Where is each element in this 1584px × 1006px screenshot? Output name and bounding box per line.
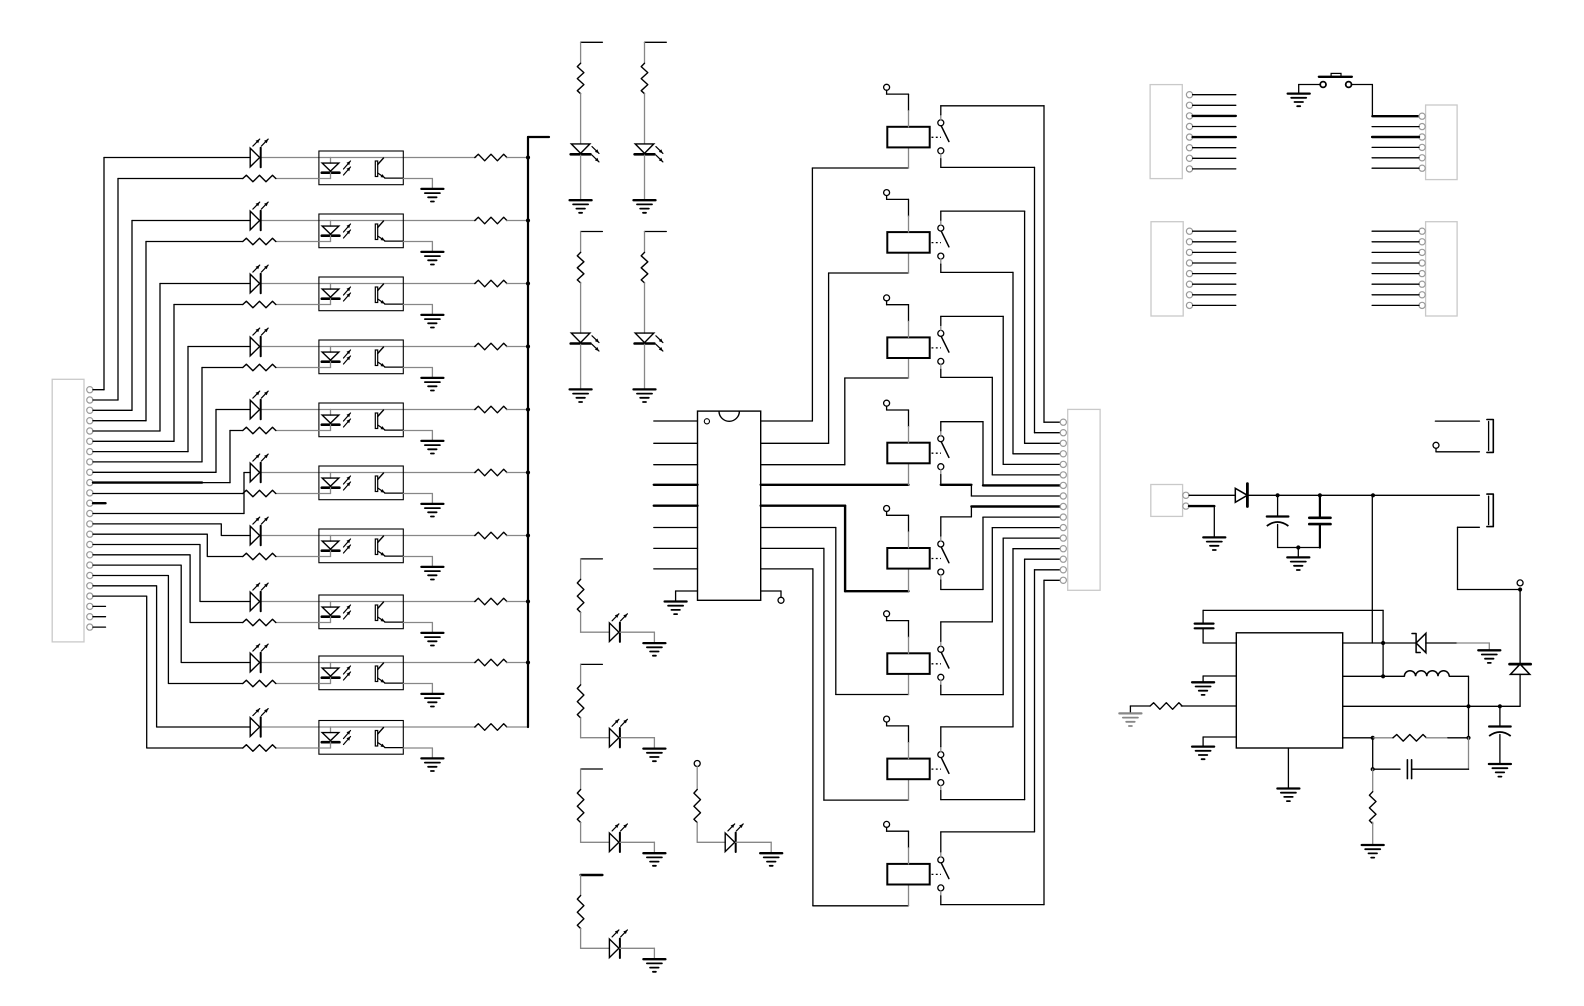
relay K5 coil bottom stem (908, 569, 910, 592)
connector J5 pin 7 (1186, 292, 1192, 298)
resistor R16 (output pull) (475, 469, 507, 476)
wire IC pin to relay K4 coil (761, 484, 909, 486)
connector J6 pin 5 (1419, 271, 1425, 277)
output capacitor C4 (1499, 706, 1501, 726)
relay K2 switch lower terminal (938, 253, 944, 259)
wire J3 pin 2 (1193, 104, 1236, 106)
wire J7 pin2 to ground (thick) (1189, 505, 1214, 507)
bus junction row 6 (526, 470, 530, 474)
ground row 4 (421, 377, 443, 379)
wire relay K3 common to J2 pin 5 (940, 325, 942, 330)
optocoupler U7 box (319, 529, 403, 563)
relay K1 switch lower terminal (938, 148, 944, 154)
wire relay K2 NO contact to J2 pin 4 (940, 259, 942, 264)
wire LED to ground (gray) (644, 344, 646, 388)
connector J4 pin 2 (1419, 124, 1425, 130)
wire LED to ground (gray) (580, 344, 582, 388)
wire row 5 resistor to bus (gray) (507, 409, 528, 411)
wire J6 pin 7 (1372, 294, 1419, 296)
wire to LED corner (gray) (580, 718, 582, 738)
wire row 9 cathode-resistor (gray) (276, 683, 319, 685)
connector J2 body (relay outputs) (1068, 409, 1100, 590)
bus junction row 5 (526, 407, 530, 411)
feedback capacitor C6 row (1373, 768, 1400, 770)
resistor R1 (input) (243, 175, 276, 182)
junction C1 (1276, 493, 1280, 497)
R32 ground (1362, 844, 1384, 846)
connector J3 pin 1 (1186, 92, 1192, 98)
resistor R3 (input) (243, 301, 276, 308)
wire LED to ground (gray) (580, 155, 582, 199)
wire row 5 cathode-resistor (gray) (276, 430, 319, 432)
wire relay K1 NO contact to J2 pin 2 (940, 154, 942, 159)
optocoupler internal LED (330, 284, 332, 290)
connector J6 pin 6 (1419, 281, 1425, 287)
wire J3 pin 4 (1193, 126, 1236, 128)
wire J3 pin 5 (1193, 136, 1236, 138)
junction C2 (1318, 493, 1322, 497)
wire LED to ground (gray) (644, 155, 646, 199)
relay K3 coil top terminal (884, 295, 890, 301)
connector J4 pin 5 (1419, 155, 1425, 161)
battery clip BT2 (lower) (1487, 494, 1493, 526)
connector J4 pin 6 (1419, 165, 1425, 171)
ground row 2 (421, 251, 443, 253)
connector J2 pin 12 (1060, 535, 1066, 541)
relay K4 switch blade (941, 442, 949, 458)
wire row 3 emitter to ground (gray) (403, 304, 432, 306)
wire to LED (gray) (580, 283, 582, 333)
resistor R5 (input) (243, 427, 276, 434)
resistor R32 (fb divider) (1369, 792, 1376, 824)
optocoupler internal LED (330, 158, 332, 164)
LED D13 (down) (571, 333, 590, 343)
power input ground (1203, 536, 1225, 538)
IC U11 left pin 2 wire (654, 442, 698, 444)
connector J3 pin 5 (1186, 134, 1192, 140)
relay K2 switch common terminal (938, 225, 944, 231)
battery clip BT1 (upper) (1435, 420, 1479, 422)
wire J5 pin 8 (1193, 304, 1236, 306)
resistor R7 (input) (243, 553, 276, 560)
optocoupler internal LED (330, 602, 332, 608)
relay K5 coil top terminal (884, 506, 890, 512)
optocoupler phototransistor (375, 224, 377, 240)
relay K4 coil top terminal (884, 400, 890, 406)
wire relay K6 NO contact to J2 pin 12 (940, 680, 942, 685)
output node wire (1343, 705, 1520, 707)
connector J2 pin 11 (1060, 525, 1066, 531)
wire row 7 resistor to bus (gray) (507, 535, 528, 537)
wire to LED corner (gray) (580, 823, 582, 843)
wire J4 pin 6 (1372, 167, 1419, 169)
resistor R22 (641, 63, 648, 93)
wire J5 pin 1 (1193, 230, 1236, 232)
connector J5 body (second-row left) (1151, 222, 1183, 316)
wire row 9 emitter to ground (gray) (403, 683, 432, 685)
resistor R18 (output pull) (475, 598, 507, 605)
wire from J1 pin 3 to row (vertical x=132.0) (93, 409, 132, 411)
optocoupler phototransistor (375, 539, 377, 555)
ground row 8 (421, 632, 443, 634)
connector J1 pin 4 (87, 418, 93, 424)
wire J5 pin 7 (1193, 294, 1236, 296)
optocoupler phototransistor (375, 605, 377, 621)
wire from J1 pin 18 to row (staircase) (93, 565, 250, 662)
resistor R10 (input) (243, 745, 276, 752)
wire J5 pin 6 (1193, 283, 1236, 285)
wire relay K8 NO contact to J2 pin 16 (940, 891, 942, 896)
connector J5 pin 3 (1186, 249, 1192, 255)
relay K6 coil bottom stem (908, 674, 910, 695)
resistor R29 (694, 790, 701, 823)
wire relay K7 common to J2 pin 13 (940, 747, 942, 752)
relay K8 switch common terminal (938, 857, 944, 863)
wire from J1 pin 19 to row (staircase) (93, 576, 243, 684)
IC U11 left pin 5 wire (654, 505, 698, 507)
ground for status 4 (643, 958, 665, 960)
wire J6 pin 1 (1372, 230, 1419, 232)
connector J1 pin 2 (87, 397, 93, 403)
resistor R28 (577, 896, 584, 929)
wire relay K7 NO contact to J2 pin 14 (940, 786, 942, 791)
relay K8 switch lower terminal (938, 885, 944, 891)
resistor R8 (input) (243, 619, 276, 626)
wire row 4 cathode-resistor (gray) (276, 367, 319, 369)
optocoupler internal LED (330, 221, 332, 227)
wire row 7 cathode-resistor (gray) (276, 556, 319, 558)
wire from J1 pin 20 to row (staircase) (93, 586, 250, 727)
resistor R4 (input) (243, 364, 276, 371)
relay K3 coil (887, 337, 929, 358)
U12 bottom pin ground (1287, 748, 1289, 788)
connector J1 pin 3 (87, 407, 93, 413)
connector J4 pin 3 (1419, 134, 1425, 140)
wire relay K5 common to J2 pin 9 (940, 536, 942, 541)
connector J2 pin 8 (1060, 493, 1066, 499)
wire LED to ground (gray) (620, 841, 654, 843)
relay K4 coil (887, 443, 929, 464)
relay K6 switch common terminal (938, 646, 944, 652)
relay K6 coil top terminal (884, 611, 890, 617)
optocoupler U2 box (319, 214, 403, 248)
wire J5 pin 2 (1193, 241, 1236, 243)
wire J3 pin 1 (1193, 94, 1236, 96)
wire J3 pin 8 (1193, 168, 1236, 170)
wire J6 pin 2 (1372, 241, 1419, 243)
resistor R14 (output pull) (475, 343, 507, 350)
relay K7 switch blade (941, 758, 949, 774)
wire IC pin to relay K8 coil (761, 568, 813, 570)
feedback resistor R31 row (1343, 737, 1373, 739)
capacitor C3 (timing) (1202, 610, 1204, 623)
wire relay K2 common to J2 pin 3 (940, 220, 942, 225)
connector J5 pin 6 (1186, 281, 1192, 287)
connector J2 pin 6 (1060, 472, 1066, 478)
indicator circuit top corner wire 1 (581, 41, 603, 43)
IC U11 left pin 7 wire (654, 547, 698, 549)
wire BT2 low side (1458, 526, 1480, 528)
wire IC pin to relay K6 coil (761, 527, 836, 529)
connector J1 pin 17 (87, 552, 93, 558)
ground for status 2 (643, 747, 665, 749)
wire from J1 pin 11 to row6 resistor (straight) (93, 493, 242, 495)
relay K8 coil (887, 864, 929, 885)
IC U11 left pin 6 wire (654, 527, 698, 529)
wire from J1 pin 2 to row (vertical x=118.0) (93, 399, 118, 401)
push button SW1 wires (1298, 85, 1300, 94)
connector J2 pin 10 (1060, 514, 1066, 520)
wire from J1 pin 5 to row (vertical x=160.0) (93, 430, 160, 432)
relay K7 coil (887, 759, 929, 780)
connector J1 pin 11 (87, 490, 93, 496)
wire from J1 pin 9 to row (vertical x=216.0) (93, 471, 216, 473)
optocoupler internal LED (330, 410, 332, 416)
connector J1 pin 9 (87, 469, 93, 475)
relay K7 switch lower terminal (938, 780, 944, 786)
wire to LED corner (gray) (580, 612, 582, 632)
connector J3 pin 4 (1186, 123, 1192, 129)
wire row 9 resistor to bus (gray) (507, 662, 528, 664)
resistor R11 (output pull) (475, 154, 507, 161)
wire from J1 pin 21 to row (staircase) (93, 596, 243, 748)
relay K1 coil top terminal (884, 84, 890, 90)
connector J1 pin 20 (87, 583, 93, 589)
wire J4 pin 2 (1372, 126, 1419, 128)
stub wire at J1 pin 23 (93, 616, 106, 618)
IC U11 body (698, 411, 761, 600)
resistor R21 (577, 63, 584, 93)
capacitor C2 (ceramic) (1319, 495, 1321, 518)
connector J6 pin 7 (1419, 292, 1425, 298)
IC U11 bottom-left ground pin wire (676, 590, 698, 592)
connector J7 pin 2 (1183, 503, 1189, 509)
ground for indicator 4 (634, 388, 656, 390)
connector J4 pin 1 (1419, 113, 1425, 119)
connector J1 pin 15 (87, 531, 93, 537)
push button SW1 (1320, 82, 1326, 88)
connector J6 pin 3 (1419, 249, 1425, 255)
C4 ground (1489, 763, 1511, 765)
junction rail to regulator (1371, 493, 1375, 497)
optocoupler phototransistor (375, 666, 377, 682)
wire relay K1 common to J2 pin 1 (940, 115, 942, 120)
ground row 7 (421, 566, 443, 568)
status circuit corner wire 2 (581, 663, 603, 665)
connector J1 pin 23 (87, 614, 93, 620)
wire row 7 anode (gray) (262, 535, 331, 537)
push button SW1 ground (1288, 92, 1310, 94)
connector J5 pin 2 (1186, 239, 1192, 245)
wire SW1 to J4 pin1 (1352, 84, 1373, 86)
optocoupler light arrows (344, 476, 351, 484)
resistor R9 (input) (243, 680, 276, 687)
relay K2 coil top terminal (884, 190, 890, 196)
vertical output to fb (1468, 706, 1470, 738)
wire row 8 cathode-resistor (gray) (276, 622, 319, 624)
wire J4 pin 5 (1372, 157, 1419, 159)
resistor R20 (output pull) (475, 724, 507, 731)
relay K7 coil bottom stem (908, 779, 910, 800)
wire row 6 cathode-resistor (gray) (276, 493, 319, 495)
wire J5 pin 4 (1193, 262, 1236, 264)
connector J6 pin 1 (1419, 228, 1425, 234)
optocoupler U5 box (319, 403, 403, 437)
optocoupler light arrows (344, 413, 351, 421)
U12 left pin 3 wire + resistor R30 (1181, 705, 1236, 707)
LED D7 (250, 526, 260, 545)
wire row 1 cathode-resistor (gray) (276, 178, 319, 180)
LED D8 (250, 592, 260, 611)
wire relay K5 NO contact to J2 pin 10 (940, 575, 942, 580)
wire R31 node down (1372, 738, 1374, 769)
optocoupler phototransistor (375, 350, 377, 366)
wire row 2 anode (gray) (262, 220, 331, 222)
ground row 1 (421, 188, 443, 190)
wire capacitor commons to ground (1278, 547, 1320, 549)
ground row 5 (421, 440, 443, 442)
wire J5 pin 3 (1193, 251, 1236, 253)
connector J6 pin 8 (1419, 302, 1425, 308)
wire terminal to resistor (gray) (696, 767, 698, 790)
wire row 10 anode (gray) (262, 726, 331, 728)
optocoupler U10 box (319, 721, 403, 755)
indicator circuit top corner wire 3 (581, 231, 603, 233)
relay K2 coil bottom stem (908, 253, 910, 273)
wire from J1 pin 15 to row (staircase) (93, 534, 243, 556)
relay K1 coil (887, 127, 929, 148)
optocoupler phototransistor (375, 287, 377, 303)
indicator circuit top corner wire 4 (645, 231, 667, 233)
wire row 5 anode (gray) (262, 409, 331, 411)
wire from J1 pin 14 to row (staircase) (93, 524, 250, 536)
connector J7 body (power in) (1151, 485, 1183, 517)
IC U11 left pin 4 wire (654, 484, 698, 486)
optocoupler light arrows (344, 731, 351, 739)
connector J2 pin 7 (1060, 482, 1066, 488)
optocoupler U9 box (319, 656, 403, 690)
LED D12 (down) (635, 144, 654, 154)
wire LED19 to ground (gray) (736, 841, 772, 843)
connector J2 pin 14 (1060, 556, 1066, 562)
wire row 10 emitter to ground (gray) (403, 747, 432, 749)
feedback vertical (1382, 610, 1384, 676)
wire row 1 emitter to ground (gray) (403, 178, 432, 180)
indicator circuit top corner wire 2 (645, 41, 667, 43)
wire row 9 anode (gray) (262, 662, 331, 664)
wire from J1 pin 17 to row (staircase) (93, 555, 243, 623)
LED D17 (609, 833, 619, 852)
relay K3 switch lower terminal (938, 358, 944, 364)
connector J2 pin 4 (1060, 451, 1066, 457)
optocoupler light arrows (344, 350, 351, 358)
LED D19 (725, 833, 735, 852)
wire from J1 pin 4 to row (vertical x=146.0) (93, 420, 146, 422)
wire row 5 emitter to ground (gray) (403, 430, 432, 432)
wire IC pin to relay K7 coil (761, 547, 824, 549)
resistor R17 (output pull) (475, 532, 507, 539)
terminal of extra LED circuit (694, 761, 700, 767)
ground row 9 (421, 693, 443, 695)
resistor R13 (output pull) (475, 280, 507, 287)
wire from J1 pin 6 to row (vertical x=174.0) (93, 440, 174, 442)
wire row 1 resistor to bus (gray) (507, 157, 528, 159)
stub wire at J1 pin 24 (93, 626, 106, 628)
IC ground (665, 600, 687, 602)
input filter ground (1287, 556, 1309, 558)
connector J2 pin 5 (1060, 461, 1066, 467)
optocoupler phototransistor (375, 731, 377, 747)
relay K4 coil bottom stem (908, 463, 910, 485)
relay K1 switch blade (941, 126, 949, 142)
inductor L1 (1404, 671, 1449, 677)
connector J6 pin 2 (1419, 239, 1425, 245)
relay K5 switch blade (941, 547, 949, 563)
ground row 6 (421, 503, 443, 505)
optocoupler phototransistor (375, 413, 377, 429)
status circuit corner wire 1 (581, 558, 603, 560)
LED D10 (250, 718, 260, 737)
LED D14 (down) (635, 333, 654, 343)
LED D5 (250, 400, 260, 419)
connector J2 pin 13 (1060, 546, 1066, 552)
wire J4 pin 3 (1372, 136, 1419, 138)
ground row 10 (421, 757, 443, 759)
bus junction row 2 (526, 218, 530, 222)
wire from J1 pin 13 to row (vertical x=244.0) (93, 513, 244, 515)
resistor R26 (577, 685, 584, 718)
connector J1 pin 6 (87, 438, 93, 444)
LED D15 (609, 623, 619, 642)
connector J3 pin 7 (1186, 155, 1192, 161)
relay K8 coil top terminal (884, 821, 890, 827)
ground for indicator 1 (570, 199, 592, 201)
optocoupler U4 box (319, 340, 403, 374)
relay K1 coil bottom stem (908, 147, 910, 168)
wire J6 pin 4 (1372, 262, 1419, 264)
optocoupler light arrows (344, 224, 351, 232)
connector J5 pin 4 (1186, 260, 1192, 266)
resistor R24 (641, 252, 648, 283)
connector J3 pin 6 (1186, 145, 1192, 151)
bus junction row 3 (526, 281, 530, 285)
wire row 8 anode (gray) (262, 601, 331, 603)
LED D6 (250, 463, 260, 482)
diode D22 (catch, to output) (1519, 590, 1521, 665)
bus junction row 4 (526, 344, 530, 348)
ground for status 1 (643, 642, 665, 644)
optocoupler light arrows (344, 605, 351, 613)
connector J1 pin 24 (87, 624, 93, 630)
ground for indicator 3 (570, 388, 592, 390)
wire row 8 emitter to ground (gray) (403, 622, 432, 624)
connector J2 pin 3 (1060, 440, 1066, 446)
optocoupler light arrows (344, 539, 351, 547)
relay K8 switch blade (941, 863, 949, 879)
connector J1 pin 16 (87, 541, 93, 547)
wire IC pin to relay K1 coil (761, 420, 813, 422)
LED D11 (down) (571, 144, 590, 154)
wire row 3 cathode-resistor (gray) (276, 304, 319, 306)
connector J1 pin 7 (87, 449, 93, 455)
wire from J1 pin 7 to row (vertical x=188.0) (93, 451, 188, 453)
wire J4 pin 4 (1372, 146, 1419, 148)
wire from J1 pin 1 to row (vertical x=104.0) (93, 389, 104, 391)
LED D3 (250, 274, 260, 293)
relay K7 coil top terminal (884, 716, 890, 722)
connector J1 pin 13 (87, 510, 93, 516)
wire J3 pin 6 (1193, 147, 1236, 149)
